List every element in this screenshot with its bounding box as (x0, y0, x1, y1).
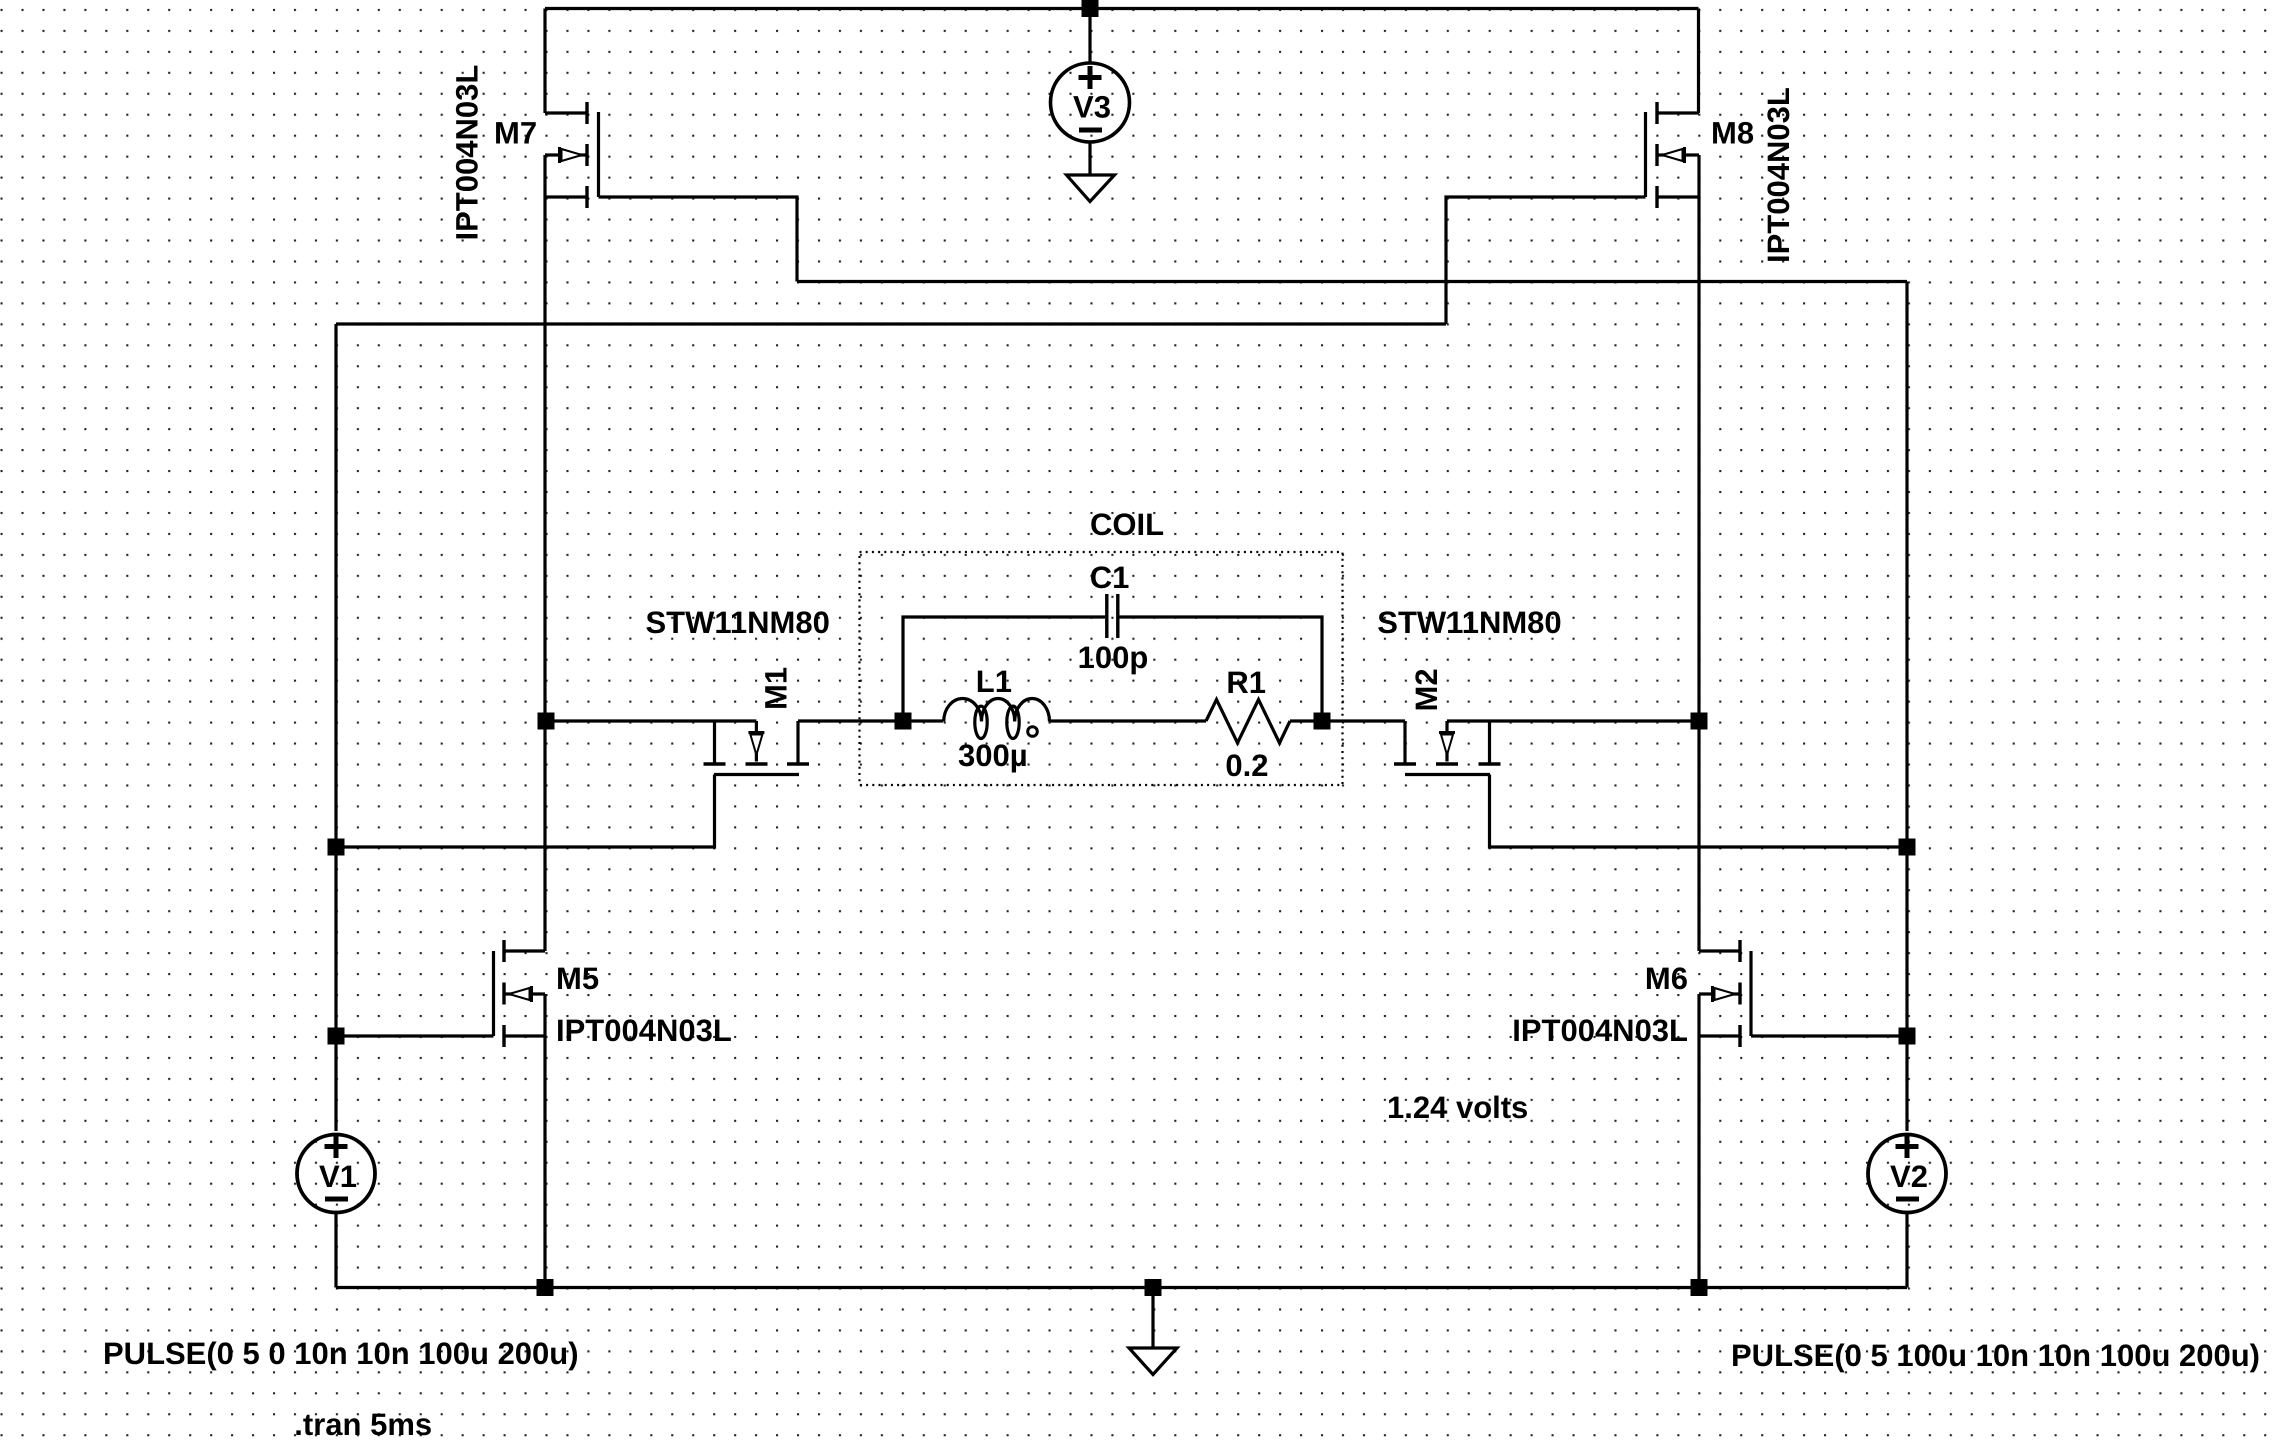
wire M8 gate lead (1446, 197, 1646, 324)
svg-text:PULSE(0 5 0 10n 10n 100u 200u): PULSE(0 5 0 10n 10n 100u 200u) (103, 1336, 579, 1371)
capacitor C1 (1107, 594, 1118, 638)
transistor M8 (1646, 102, 1700, 208)
wire M2 gate line (1490, 775, 1908, 848)
wire M5 gate lead (336, 1034, 494, 1037)
svg-text:1.24 volts: 1.24 volts (1387, 1090, 1528, 1125)
wire mid L1-R1 (1050, 719, 1207, 722)
junction node right rail gate M2 (1899, 839, 1916, 856)
svg-text:M1: M1 (759, 667, 794, 710)
wire right leg middle (1697, 155, 1700, 951)
svg-text:M5: M5 (556, 961, 599, 996)
svg-text:R1: R1 (1226, 665, 1266, 700)
svg-text:L1: L1 (976, 664, 1012, 699)
junction node top (1082, 0, 1099, 17)
svg-text:IPT004N03L: IPT004N03L (556, 1013, 732, 1048)
svg-text:C1: C1 (1090, 560, 1130, 595)
ground for V3 (1067, 175, 1115, 202)
wire M1 gate line (336, 775, 715, 848)
junction node left rail gate M1 (328, 839, 345, 856)
svg-text:COIL: COIL (1090, 507, 1164, 542)
svg-text:300µ: 300µ (958, 738, 1028, 773)
svg-text:M7: M7 (494, 116, 537, 151)
junction node bottom ground (1145, 1279, 1162, 1296)
wire mid M1-L1 (798, 719, 943, 722)
junction node right rail gate M6 (1899, 1028, 1916, 1045)
svg-text:V2: V2 (1890, 1159, 1928, 1194)
wire left leg lower (543, 994, 546, 1288)
wire C1 left branch (903, 617, 1105, 721)
resistor R1 (1206, 700, 1290, 744)
svg-text:M2: M2 (1409, 668, 1444, 711)
svg-text:100p: 100p (1078, 640, 1149, 675)
svg-text:IPT004N03L: IPT004N03L (1512, 1013, 1688, 1048)
inductor L1 (944, 699, 1050, 739)
wire M8 gate cross line (336, 322, 1446, 325)
svg-text:PULSE(0 5 100u 10n 10n 100u 20: PULSE(0 5 100u 10n 10n 100u 200u) (1731, 1338, 2260, 1373)
svg-text:STW11NM80: STW11NM80 (1377, 605, 1561, 640)
junction node mid-left (538, 713, 555, 730)
wire mid R1-M2 (1290, 719, 1405, 722)
transistor M2 (1394, 721, 1501, 775)
transistor M7 (545, 102, 599, 208)
wire mid left (545, 719, 756, 722)
voltage source V1 (297, 1135, 375, 1213)
transistor M6 (1699, 940, 1751, 1047)
wire right rail (1905, 282, 1908, 1132)
ground (bottom center) (1129, 1348, 1177, 1375)
wire V3 stem upper (1088, 9, 1091, 62)
svg-text:IPT004N03L: IPT004N03L (450, 65, 485, 241)
junction node left rail gate M5 (328, 1028, 345, 1045)
transistor M1 (704, 721, 810, 775)
svg-text:0.2: 0.2 (1225, 748, 1268, 783)
wire right leg lower (1697, 994, 1700, 1288)
wire M7 gate cross line (797, 280, 1907, 283)
svg-text:STW11NM80: STW11NM80 (646, 605, 830, 640)
wire left rail (334, 324, 337, 1131)
svg-text:.tran 5ms: .tran 5ms (294, 1407, 432, 1442)
svg-text:M6: M6 (1645, 961, 1688, 996)
wire bottom ground stem (1151, 1288, 1154, 1349)
voltage source V2 (1868, 1135, 1946, 1213)
svg-text:M8: M8 (1711, 116, 1754, 151)
wire right leg upper (1697, 9, 1700, 114)
wire M7 gate lead (599, 197, 798, 282)
transistor M5 (494, 940, 546, 1047)
wire M6 gate lead (1751, 1034, 1907, 1037)
junction node bottom left (537, 1279, 554, 1296)
wire left rail lower (334, 1213, 337, 1288)
junction node R1 right (1314, 713, 1331, 730)
wire top rail (545, 7, 1699, 10)
svg-text:V1: V1 (319, 1159, 357, 1194)
wire right rail lower (1905, 1213, 1908, 1288)
junction node L1 left (895, 713, 912, 730)
junction node mid-right (1691, 713, 1708, 730)
voltage source V3 (1051, 63, 1130, 142)
COIL dotted box (860, 552, 1343, 785)
svg-text:V3: V3 (1073, 90, 1111, 125)
wire left leg upper (543, 9, 546, 114)
junction node bottom right (1691, 1279, 1708, 1296)
wire V3 stem lower (1088, 144, 1091, 176)
wire C1 right branch (1119, 617, 1322, 721)
wire mid right (1447, 719, 1699, 722)
wire left leg middle (543, 155, 546, 951)
wire bottom rail (336, 1286, 1907, 1289)
svg-text:IPT004N03L: IPT004N03L (1761, 87, 1796, 263)
